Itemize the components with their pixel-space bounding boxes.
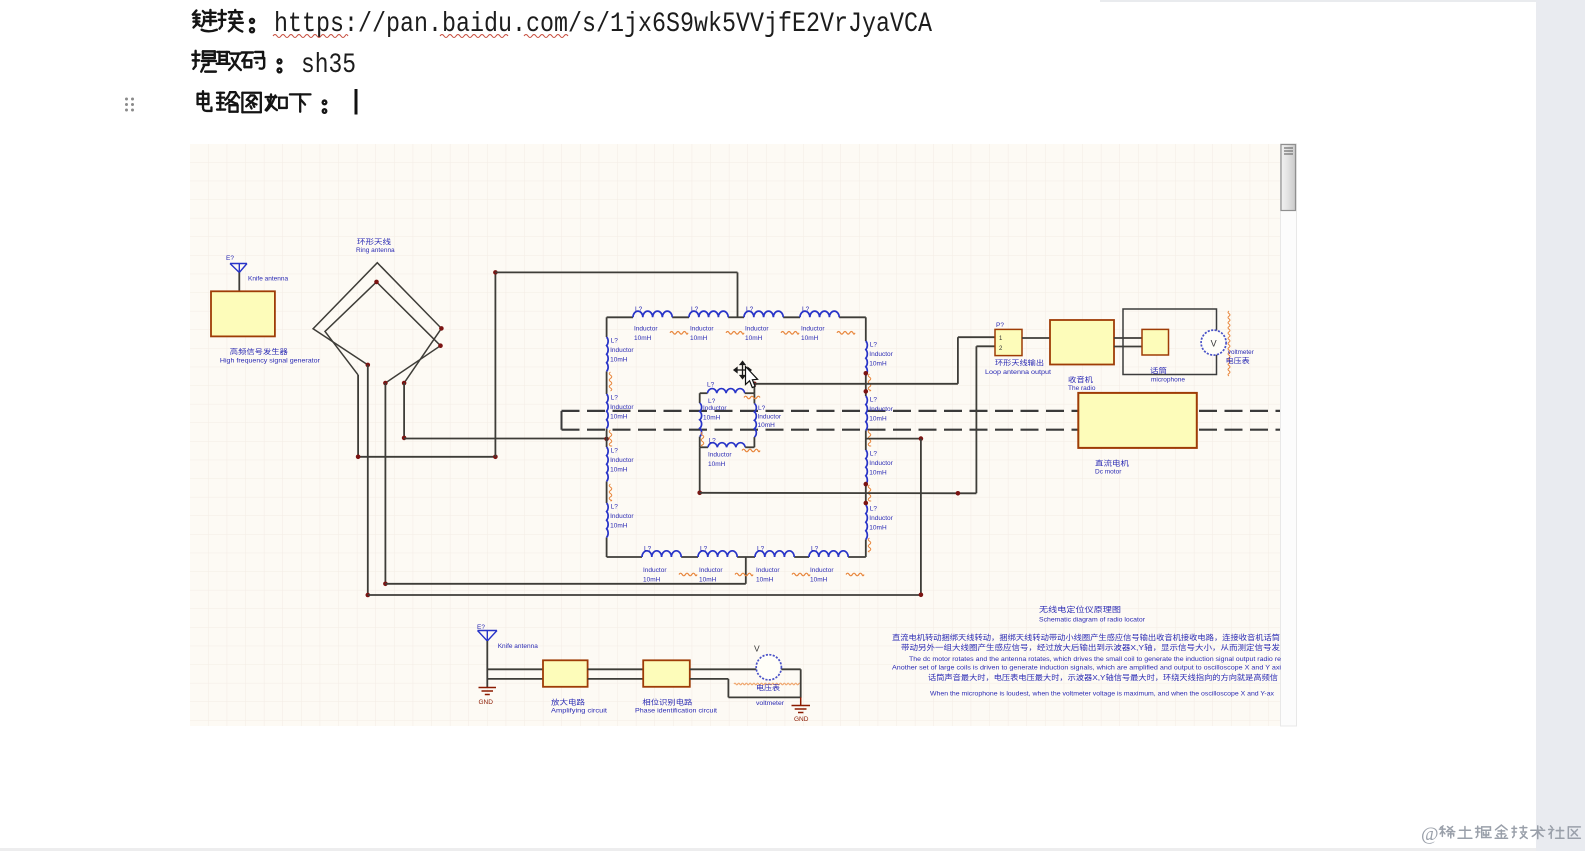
svg-text:Loop antenna output: Loop antenna output — [985, 369, 1051, 376]
dc motor box — [1078, 393, 1197, 476]
svg-text:10mH: 10mH — [756, 577, 774, 584]
inductor L4 (top row) 10mH — [800, 306, 855, 342]
svg-text:10mH: 10mH — [745, 335, 763, 342]
text cursor — [355, 89, 358, 115]
schematic title text — [1039, 604, 1146, 624]
svg-text:Ring antenna: Ring antenna — [356, 247, 395, 254]
junction node J11 — [919, 593, 924, 598]
wire ring outer-end down — [403, 383, 405, 438]
svg-text:Knife antenna: Knife antenna — [248, 276, 289, 283]
svg-text:P?: P? — [996, 322, 1004, 329]
svg-text:Inductor: Inductor — [643, 567, 667, 574]
mouse cursor overlay — [734, 362, 758, 388]
junction node J7 — [604, 437, 609, 442]
svg-text:10mH: 10mH — [610, 414, 628, 421]
svg-text:10mH: 10mH — [869, 361, 887, 368]
junction node J12 — [956, 491, 961, 496]
svg-text:话筒声音最大时，电压表电压最大时，示波器X,Y轴信号最大时，: 话筒声音最大时，电压表电压最大时，示波器X,Y轴信号最大时，环绕天线指向的方向就… — [928, 673, 1278, 682]
svg-text:Schematic diagram of radio loc: Schematic diagram of radio locator — [1039, 617, 1146, 624]
svg-text:sh35: sh35 — [301, 50, 356, 81]
wire bottom bus to right — [368, 594, 921, 596]
svg-text:L?: L? — [758, 405, 766, 412]
inductor L9 (right column) 10mH — [866, 341, 894, 375]
svg-text:10mH: 10mH — [634, 335, 652, 342]
svg-text:10mH: 10mH — [810, 577, 828, 584]
wire top feed down to coil loop — [737, 272, 739, 317]
wire ring outer-left down — [367, 365, 369, 595]
wire lower bus up to coil loop — [745, 557, 747, 584]
svg-text:L?: L? — [611, 338, 619, 345]
svg-text:Knife antenna: Knife antenna — [498, 643, 539, 650]
svg-text:Phase identification circuit: Phase identification circuit — [635, 708, 717, 715]
svg-text:L?: L? — [870, 397, 878, 404]
svg-text:L?: L? — [757, 546, 765, 553]
watermark @稀土掘金技术社区 — [1421, 824, 1580, 845]
wire lower bus — [385, 583, 745, 585]
svg-text:无线电定位仪原理图: 无线电定位仪原理图 — [1039, 604, 1121, 614]
wire antenna to generator — [238, 273, 240, 292]
svg-text:L?: L? — [811, 546, 819, 553]
phase identification circuit box — [635, 660, 717, 714]
svg-text:直流电机转动捆绑天线转动，捆绑天线转动带动小线圈产生感应信号: 直流电机转动捆绑天线转动，捆绑天线转动带动小线圈产生感应信号输出收音机接收电路，… — [892, 633, 1280, 642]
wire voltmeter to ground — [781, 669, 800, 698]
svg-text:GND: GND — [479, 699, 494, 706]
wire to amplifier lower — [487, 678, 543, 680]
svg-text:Inductor: Inductor — [810, 567, 834, 574]
svg-text:话筒: 话筒 — [1150, 366, 1167, 375]
knife antenna E? (bottom) — [477, 624, 538, 650]
the radio box — [1050, 320, 1114, 392]
svg-text:L?: L? — [802, 306, 810, 313]
svg-text:Inductor: Inductor — [610, 513, 634, 520]
wire to riser — [358, 456, 495, 458]
inductor L13 (bottom row) 10mH — [642, 546, 697, 584]
junction node J2 — [493, 455, 498, 460]
voltmeter V2 — [734, 644, 801, 707]
ring antenna label — [356, 237, 395, 254]
wire pin2 feed — [976, 346, 995, 493]
amplifying circuit box — [543, 660, 607, 714]
node right column junctions — [864, 371, 869, 376]
svg-text:High frequency signal generato: High frequency signal generator — [220, 357, 321, 364]
svg-text:Amplifying circuit: Amplifying circuit — [551, 708, 607, 715]
connector P? loop antenna output — [985, 322, 1051, 376]
high frequency signal generator box — [211, 291, 321, 364]
dashed rotation axis line 1 — [562, 410, 1281, 412]
svg-text:L?: L? — [709, 438, 717, 445]
svg-text:Inductor: Inductor — [699, 567, 723, 574]
wire top feed right — [495, 271, 737, 273]
wire ring inner-left down — [357, 375, 359, 457]
junction node J10 — [919, 436, 924, 441]
svg-text:10mH: 10mH — [643, 577, 661, 584]
inductor L8 (left column) 10mH — [607, 503, 635, 537]
junction node J6 — [402, 436, 407, 441]
browser scrollbar track right — [1536, 0, 1587, 851]
page bottom hairline — [0, 848, 1587, 851]
wire loop right to motor riser — [866, 438, 921, 440]
svg-text:L?: L? — [700, 546, 708, 553]
ground GND (bottom left) — [479, 688, 497, 707]
wire small coil top to node — [753, 384, 755, 393]
inductor loop frame wires — [607, 317, 866, 557]
svg-text:10mH: 10mH — [610, 357, 628, 364]
svg-text:L?: L? — [691, 306, 699, 313]
wire motor riser down — [920, 439, 922, 595]
svg-text:Inductor: Inductor — [708, 452, 732, 459]
voltmeter V1 — [1201, 311, 1255, 376]
svg-text:10mH: 10mH — [708, 461, 726, 468]
svg-text:When the microphone is loudest: When the microphone is loudest, when the… — [930, 691, 1275, 698]
svg-text:Inductor: Inductor — [758, 414, 782, 421]
inductor L14 (bottom row) 10mH — [698, 546, 753, 584]
svg-text:L?: L? — [611, 448, 619, 455]
svg-text:https://pan.baidu.com/s/1jx6S9: https://pan.baidu.com/s/1jx6S9wk5VVjfE2V… — [274, 9, 932, 40]
svg-text:Inductor: Inductor — [690, 325, 714, 332]
dashed axis left bracket — [561, 411, 563, 430]
knife antenna E? (top left) — [226, 255, 289, 283]
text line 2: 提取码：sh35 — [192, 50, 356, 81]
svg-text:10mH: 10mH — [869, 470, 887, 477]
svg-text:Inductor: Inductor — [745, 325, 769, 332]
junction node J4 — [366, 593, 371, 598]
node ring end inner — [383, 381, 388, 386]
description paragraph — [892, 633, 1282, 698]
svg-text:10mH: 10mH — [869, 525, 887, 532]
wire to amplifier upper — [487, 668, 543, 670]
inductor L7 (left column) 10mH — [607, 447, 635, 481]
svg-text:voltmeter: voltmeter — [756, 700, 785, 707]
wire phase to voltmeter — [690, 668, 757, 670]
svg-text:Another set of large coils is: Another set of large coils is driven to … — [892, 665, 1282, 672]
svg-text:10mH: 10mH — [610, 523, 628, 530]
svg-text:Inductor: Inductor — [869, 351, 893, 358]
inductor L12 (right column) 10mH — [866, 505, 894, 539]
svg-text:microphone: microphone — [1151, 377, 1185, 384]
svg-text:@: @ — [1421, 824, 1439, 845]
junction node J1 — [356, 455, 361, 460]
svg-text:相位识别电路: 相位识别电路 — [642, 698, 692, 707]
node ring right inner — [438, 343, 443, 348]
inductor L5 (left column) 10mH — [607, 337, 635, 371]
svg-text:Dc motor: Dc motor — [1095, 469, 1122, 476]
svg-text:Inductor: Inductor — [634, 325, 658, 332]
svg-text:Inductor: Inductor — [869, 460, 893, 467]
wire P? to radio — [1022, 337, 1050, 339]
svg-text:Inductor: Inductor — [869, 515, 893, 522]
inductor L15 (bottom row) 10mH — [755, 546, 810, 584]
svg-text:L?: L? — [635, 306, 643, 313]
wire small coil bottom down — [699, 447, 701, 493]
svg-text:电压表: 电压表 — [756, 683, 780, 692]
node ring end outer — [402, 381, 407, 386]
svg-text:L?: L? — [644, 546, 652, 553]
svg-text:10mH: 10mH — [690, 335, 708, 342]
enclosure rectangle — [1123, 309, 1217, 375]
wire ring inner-end down — [384, 383, 386, 584]
svg-text:L?: L? — [611, 395, 619, 402]
svg-text:The dc motor rotates and the a: The dc motor rotates and the antenna rot… — [909, 656, 1281, 663]
wires amplifier to phase box — [588, 669, 644, 679]
svg-text:V: V — [1211, 339, 1217, 349]
node ring right outer — [439, 326, 444, 331]
svg-text:L?: L? — [870, 342, 878, 349]
junction node J9 — [697, 491, 702, 496]
svg-text:直流电机: 直流电机 — [1095, 459, 1129, 468]
svg-text:L?: L? — [746, 306, 754, 313]
svg-text:V: V — [754, 644, 760, 654]
svg-text:环形天线输出: 环形天线输出 — [995, 358, 1044, 367]
spellcheck squiggles — [273, 35, 568, 38]
svg-text:L?: L? — [707, 382, 715, 389]
wire radio to microphone (pair) — [1114, 338, 1142, 347]
svg-text:Inductor: Inductor — [610, 457, 634, 464]
svg-text:放大电路: 放大电路 — [551, 698, 585, 707]
page top hairline — [1100, 0, 1587, 2]
svg-text:高频信号发生器: 高频信号发生器 — [230, 347, 288, 356]
embedded viewer scrollbar — [1281, 144, 1297, 726]
svg-text:voltmeter: voltmeter — [1228, 349, 1255, 356]
node ring top inner — [374, 280, 379, 285]
svg-text:The radio: The radio — [1068, 385, 1096, 392]
inductor L16 (bottom row) 10mH — [809, 546, 864, 584]
inductor L2 (top row) 10mH — [689, 306, 744, 342]
wire phase lower to ground — [690, 679, 801, 698]
svg-text:Inductor: Inductor — [610, 404, 634, 411]
svg-text:E?: E? — [226, 255, 234, 262]
orange marks on columns — [609, 372, 871, 552]
inductor L1 (top row) 10mH — [633, 306, 688, 342]
svg-text:Inductor: Inductor — [756, 567, 780, 574]
svg-text:Inductor: Inductor — [801, 325, 825, 332]
svg-text:电压表: 电压表 — [1226, 356, 1250, 365]
svg-text:收音机: 收音机 — [1068, 375, 1093, 384]
svg-text:Inductor: Inductor — [869, 406, 893, 413]
node ring bottom outer-left — [366, 363, 371, 368]
svg-text:10mH: 10mH — [801, 335, 819, 342]
svg-text:L?: L? — [611, 504, 619, 511]
svg-text:10mH: 10mH — [869, 416, 887, 423]
junction node J5 — [383, 582, 388, 587]
wire to left coil column — [404, 438, 606, 440]
wire antenna down — [486, 641, 488, 688]
junction node J8 — [752, 382, 757, 387]
svg-text:10mH: 10mH — [703, 415, 721, 422]
svg-text:GND: GND — [794, 716, 809, 723]
svg-text:10mH: 10mH — [699, 577, 717, 584]
inductor L3 (top row) 10mH — [744, 306, 799, 342]
svg-text:L?: L? — [870, 506, 878, 513]
wire riser up — [494, 272, 496, 456]
svg-text:Inductor: Inductor — [703, 405, 727, 412]
wire sense output lower — [700, 492, 977, 495]
ground GND (bottom right) — [792, 697, 811, 723]
inductor L10 (right column) 10mH — [866, 396, 894, 430]
inductor L11 (right column) 10mH — [866, 450, 894, 484]
junction node J3 — [493, 270, 498, 275]
svg-text:10mH: 10mH — [758, 422, 776, 429]
svg-text:带动另外一组大线圈产生感应信号，经过放大后输出到示波器X,Y: 带动另外一组大线圈产生感应信号，经过放大后输出到示波器X,Y轴，显示信号大小，从… — [901, 643, 1280, 652]
text line 3: 电路图如下： — [198, 91, 327, 113]
dashed rotation axis line 2 — [562, 429, 1281, 431]
inductor L6 (left column) 10mH — [607, 394, 635, 428]
wire sense output upper — [754, 383, 958, 385]
microphone box — [1142, 329, 1185, 383]
svg-text:L?: L? — [870, 451, 878, 458]
ring antenna (loop, 2 turns) — [313, 263, 441, 383]
svg-text:10mH: 10mH — [610, 467, 628, 474]
small sense coil group (inner rectangle) — [700, 382, 782, 469]
svg-text:Inductor: Inductor — [610, 347, 634, 354]
svg-text:L?: L? — [708, 398, 716, 405]
text line 1: 链接：https://... — [193, 9, 932, 40]
svg-text:环形天线: 环形天线 — [357, 237, 391, 246]
wire pin1 feed — [958, 337, 995, 384]
drag handle dots — [125, 98, 134, 112]
